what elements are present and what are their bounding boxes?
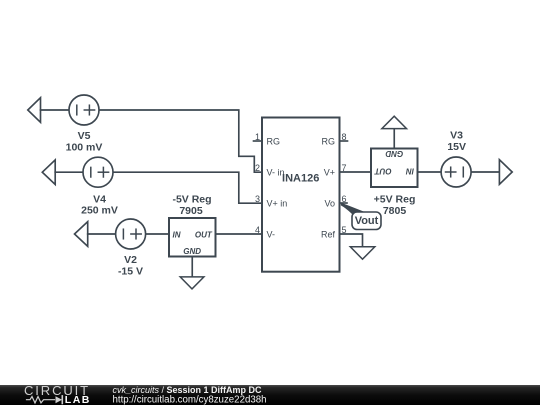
svg-text:1: 1: [255, 132, 260, 142]
wire V4 to pin3: [114, 172, 262, 203]
wire U3 IN to V3: [418, 171, 441, 173]
logo diode: [56, 396, 63, 403]
regulator U2 (-5V Reg 7905): [169, 218, 216, 257]
svg-text:Vo: Vo: [324, 199, 335, 209]
svg-text:OUT: OUT: [195, 230, 213, 239]
svg-text:INA126: INA126: [282, 173, 319, 185]
wire pin5 to ground: [340, 234, 363, 247]
wire pin7 to regulator U3: [340, 171, 372, 173]
ground flipped (above U3): [382, 116, 407, 128]
svg-text:100 mV: 100 mV: [66, 141, 103, 153]
footer bar: [0, 385, 540, 405]
Vout flag pointer: [341, 203, 366, 214]
ground (below U2): [180, 277, 204, 289]
voltage source V3: [441, 157, 471, 187]
svg-text:+5V Reg: +5V Reg: [374, 193, 416, 205]
pin 6 stub: [340, 202, 348, 204]
svg-text:V+ in: V+ in: [267, 199, 288, 209]
op-amp U1 (INA126 body): [262, 118, 340, 272]
logo diode bar: [61, 396, 63, 404]
voltage source V5: [69, 95, 99, 125]
wire V2 to regulator U2: [147, 233, 170, 235]
svg-text:IN: IN: [406, 167, 414, 176]
svg-text:RG: RG: [322, 136, 336, 146]
pin 1 stub: [254, 140, 263, 142]
svg-text:8: 8: [342, 132, 347, 142]
svg-text:Vout: Vout: [355, 215, 379, 227]
net label Vout: [352, 212, 381, 230]
wire V5 to pin2: [100, 110, 262, 172]
wire U2 GND down: [191, 257, 193, 278]
ground (Ref pin): [350, 247, 375, 259]
voltage source V4: [83, 157, 113, 187]
svg-text:OUT: OUT: [374, 167, 392, 176]
svg-text:4: 4: [255, 225, 260, 235]
node flag D (right terminal): [499, 160, 512, 185]
node flag C (left terminal of V2): [75, 222, 88, 247]
svg-text:-5V Reg: -5V Reg: [172, 194, 211, 206]
svg-text:2: 2: [255, 163, 260, 173]
logo resistor-diode glyph: [27, 397, 55, 403]
svg-text:LAB: LAB: [65, 394, 91, 405]
svg-text:cvk_circuits / Session 1 DiffA: cvk_circuits / Session 1 DiffAmp DC: [113, 385, 263, 395]
svg-text:V+: V+: [324, 168, 335, 178]
voltage source V2: [116, 219, 146, 249]
wire: [55, 171, 82, 173]
svg-text:3: 3: [255, 194, 260, 204]
pin 8 stub: [340, 140, 348, 142]
svg-text:6: 6: [342, 194, 347, 204]
svg-text:IN: IN: [173, 230, 181, 239]
svg-text:RG: RG: [267, 136, 281, 146]
svg-text:V3: V3: [450, 130, 463, 142]
svg-text:Ref: Ref: [321, 229, 336, 239]
svg-text:250 mV: 250 mV: [81, 205, 118, 217]
wire U3 GND up: [393, 129, 395, 149]
wire U2 OUT to pin4: [216, 233, 263, 235]
svg-text:V- in: V- in: [267, 168, 285, 178]
svg-text:http://circuitlab.com/cy8zuze2: http://circuitlab.com/cy8zuze22d38h: [113, 394, 267, 405]
svg-text:V2: V2: [124, 254, 137, 266]
wire: [41, 109, 69, 111]
svg-text:GND: GND: [385, 149, 403, 158]
svg-text:7805: 7805: [383, 205, 407, 217]
svg-text:V-: V-: [267, 229, 276, 239]
wire: [88, 233, 115, 235]
node flag B (left terminal of V4): [42, 160, 55, 185]
svg-text:15V: 15V: [447, 141, 466, 153]
svg-text:V5: V5: [78, 130, 91, 142]
svg-text:7905: 7905: [179, 205, 203, 217]
regulator U3 (+5V Reg 7805, rotated 180): [371, 149, 418, 188]
wire V3 to node flag D: [472, 171, 499, 173]
svg-text:GND: GND: [183, 247, 201, 256]
svg-text:-15 V: -15 V: [118, 266, 143, 278]
node flag A (left terminal of V5): [28, 98, 41, 123]
